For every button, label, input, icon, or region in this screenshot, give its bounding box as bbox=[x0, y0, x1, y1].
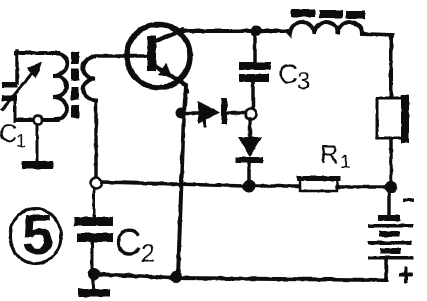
wire load to node bbox=[389, 138, 393, 182]
battery B1 bbox=[368, 192, 413, 279]
wire C2 to ground bbox=[92, 279, 95, 289]
label R1 bbox=[320, 139, 351, 173]
ground (tank) bbox=[22, 161, 53, 169]
ground (C2) bbox=[78, 289, 110, 297]
node below C3 (open) bbox=[246, 109, 257, 120]
capacitor C3 bbox=[239, 34, 271, 109]
label C2 bbox=[115, 222, 155, 268]
wire middle rail bbox=[102, 182, 243, 186]
wire right vertical bbox=[389, 35, 393, 98]
inductor L1 bbox=[288, 22, 392, 35]
svg-text:C: C bbox=[115, 222, 142, 263]
label C1 bbox=[0, 120, 26, 151]
svg-text:C: C bbox=[0, 120, 17, 148]
transistor Q1 bbox=[127, 25, 190, 93]
figure number 5 bbox=[10, 203, 61, 267]
wire tank to ground bbox=[36, 125, 39, 161]
diode D1 bbox=[187, 98, 246, 127]
label C3 bbox=[278, 59, 310, 95]
earphone load bbox=[377, 95, 409, 143]
node right rail junction bbox=[385, 181, 398, 194]
node D2 bottom junction bbox=[243, 180, 256, 193]
svg-text:2: 2 bbox=[141, 240, 155, 268]
node C2 bottom junction bbox=[88, 268, 100, 280]
transformer core bbox=[71, 52, 79, 118]
label minus bbox=[403, 198, 414, 202]
diode D2 bbox=[235, 119, 263, 180]
inductor core (dashed) bbox=[291, 9, 365, 19]
svg-text:1: 1 bbox=[340, 152, 351, 173]
node emitter diode junction bbox=[176, 108, 187, 119]
svg-text:5: 5 bbox=[22, 203, 54, 267]
node emitter bottom junction bbox=[170, 271, 182, 283]
label plus bbox=[399, 267, 413, 283]
wire tank top bar bbox=[16, 51, 58, 55]
transformer secondary coil bbox=[83, 57, 96, 100]
wire secondary down bbox=[94, 100, 98, 178]
resistor R1 bbox=[299, 178, 338, 191]
variable capacitor C1 bbox=[2, 51, 42, 121]
node secondary bottom (open) bbox=[91, 178, 102, 189]
node top rail junction bbox=[251, 26, 262, 37]
wire top rail right of node bbox=[261, 29, 289, 33]
wire base lead bbox=[93, 54, 148, 58]
wire tank bottom bar bbox=[16, 118, 58, 122]
node tank bottom junction (open) bbox=[34, 116, 43, 125]
svg-text:C: C bbox=[278, 59, 298, 89]
wire node to R1 bbox=[256, 184, 300, 188]
transformer primary coil bbox=[53, 54, 67, 120]
wire emitter down bbox=[178, 87, 186, 277]
wire collector to top rail bbox=[180, 29, 252, 33]
capacitor C2 bbox=[74, 188, 113, 269]
svg-text:1: 1 bbox=[16, 131, 26, 151]
svg-text:R: R bbox=[320, 139, 339, 169]
svg-text:3: 3 bbox=[297, 68, 310, 95]
wire bottom rail bbox=[94, 274, 386, 280]
wire R1 to right node bbox=[337, 185, 385, 189]
